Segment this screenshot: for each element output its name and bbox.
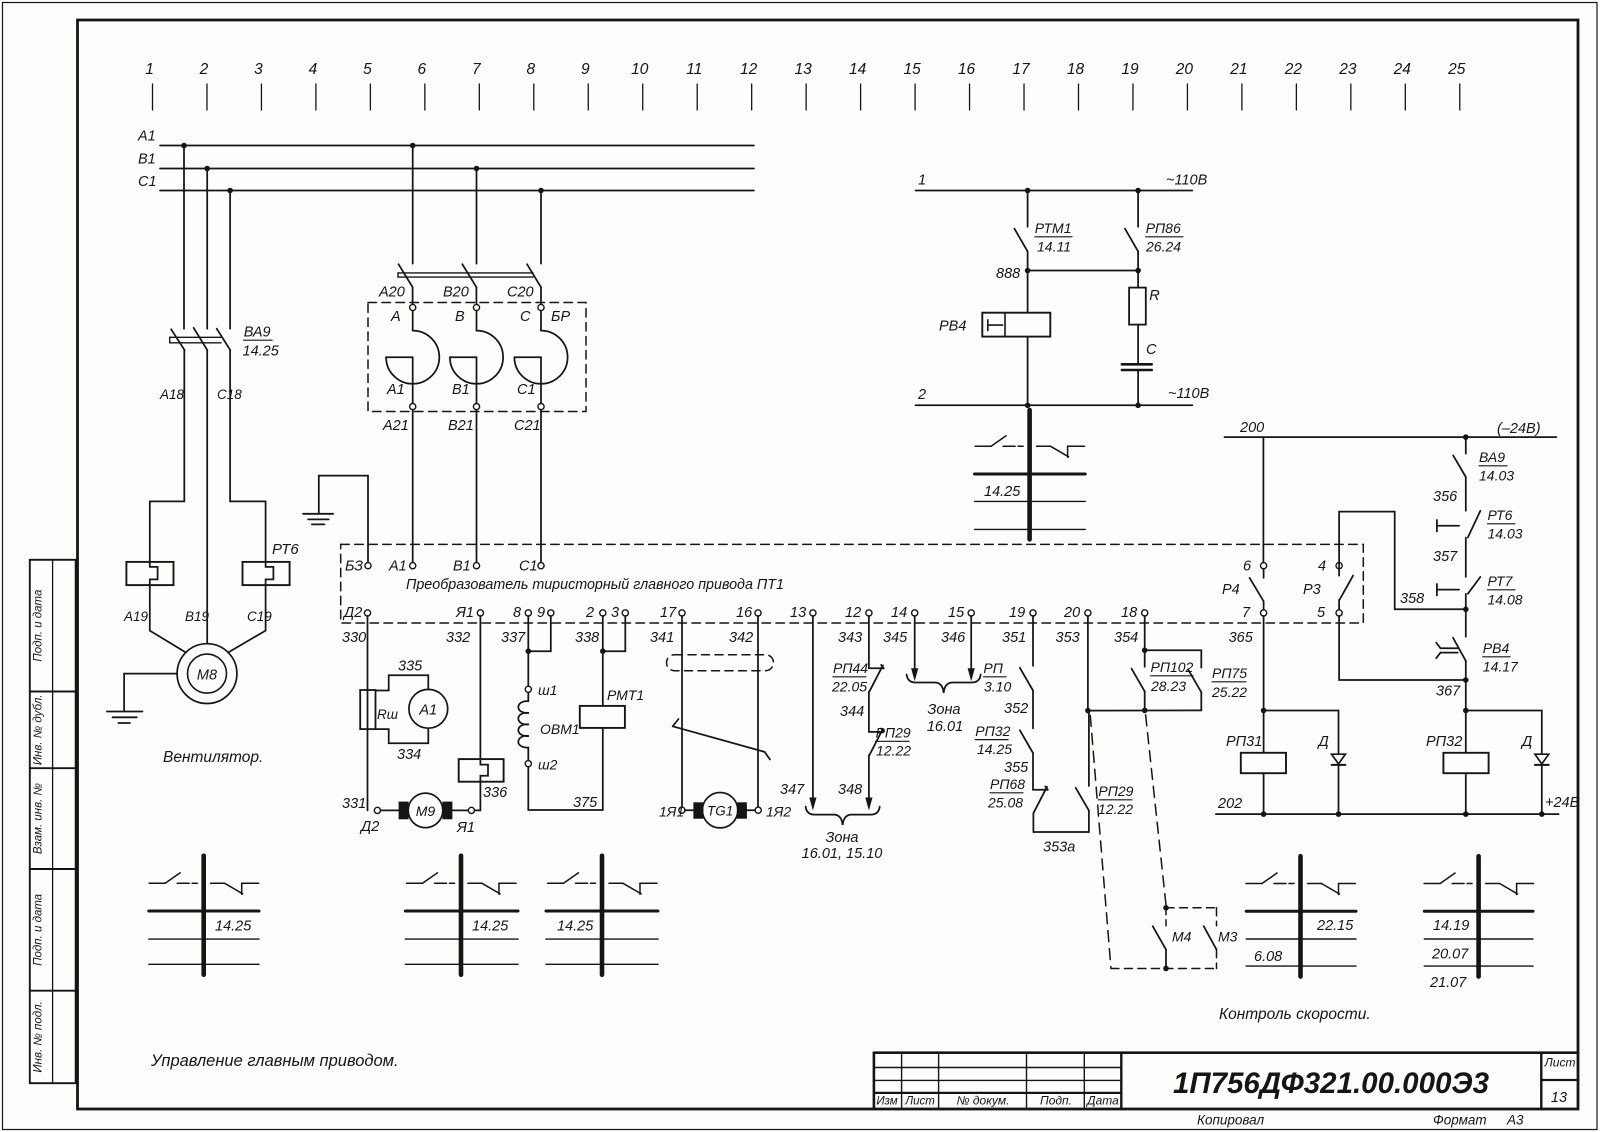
svg-text:В19: В19	[185, 609, 210, 624]
svg-text:В: В	[455, 309, 465, 325]
svg-text:6: 6	[1243, 559, 1252, 575]
svg-text:А: А	[390, 309, 401, 325]
relay coil РМТ1	[580, 687, 644, 728]
junction 8-9	[526, 648, 532, 654]
svg-text:4: 4	[309, 61, 318, 78]
contact diagram 22.15/6.08	[1246, 856, 1356, 976]
svg-text:Я1: Я1	[455, 605, 474, 621]
svg-text:РП29: РП29	[876, 725, 911, 741]
wire from A1 rail to switch pole A20	[412, 146, 414, 264]
svg-text:М9: М9	[416, 803, 436, 819]
svg-text:14.25: 14.25	[215, 919, 252, 935]
svg-text:22.15: 22.15	[1316, 918, 1354, 934]
svg-text:Управление главным приводом.: Управление главным приводом.	[150, 1052, 399, 1070]
twisted pair symbol	[673, 719, 770, 760]
svg-text:18: 18	[1067, 61, 1085, 78]
wire from C1 rail to ВА9 pole 3	[229, 191, 231, 329]
svg-text:В1: В1	[138, 152, 156, 168]
svg-text:358: 358	[1400, 591, 1424, 607]
dashed capsule (connector group)	[667, 655, 774, 671]
terminal circle Я1 (motor side)	[468, 807, 474, 813]
wire 9	[528, 616, 551, 651]
terminal circle Д2 (motor side)	[374, 807, 380, 813]
svg-text:Изм: Изм	[876, 1096, 897, 1108]
svg-text:2: 2	[585, 605, 594, 621]
wire 8/337	[527, 616, 529, 686]
contact РП44 22.05	[831, 660, 884, 695]
wire 202 bus (+24В)	[1216, 795, 1580, 817]
svg-text:13: 13	[790, 605, 806, 621]
wire to R	[1137, 251, 1139, 287]
svg-text:РП29: РП29	[1098, 783, 1133, 799]
svg-text:344: 344	[840, 704, 864, 720]
wire M9 to Я1	[452, 809, 468, 811]
diode Д (right)	[1520, 734, 1549, 765]
capacitor C	[1122, 342, 1157, 370]
svg-text:365: 365	[1229, 630, 1254, 646]
contact Р4	[1222, 569, 1264, 610]
wire R to C	[1137, 325, 1139, 364]
svg-text:375: 375	[573, 795, 598, 811]
wire РВ4/367 to РП32	[1465, 711, 1467, 753]
wire 367	[1436, 661, 1469, 710]
svg-text:345: 345	[883, 630, 908, 646]
svg-text:Rш: Rш	[377, 707, 398, 722]
wire 348	[838, 755, 873, 810]
svg-text:25.08: 25.08	[987, 795, 1023, 811]
wire 12/343	[868, 616, 870, 668]
terminal В1 (converter top)	[453, 559, 480, 575]
wire РМТ1 to 375	[602, 728, 604, 810]
current transformer В	[450, 304, 503, 409]
svg-text:17: 17	[1012, 61, 1031, 78]
terminal С1 (converter top)	[519, 559, 544, 575]
svg-text:(–24В): (–24В)	[1497, 421, 1541, 437]
terminal 12 (converter bottom)	[845, 605, 872, 621]
wire A18	[150, 350, 185, 562]
svg-text:16.01, 15.10: 16.01, 15.10	[802, 846, 883, 862]
contact РТ6 14.03	[1437, 507, 1523, 577]
wire 13/347	[780, 616, 817, 811]
contact РТ7 14.08	[1437, 573, 1523, 609]
svg-text:347: 347	[780, 782, 805, 798]
svg-text:С19: С19	[247, 609, 272, 624]
svg-text:ВА9: ВА9	[1479, 449, 1505, 465]
contact РП86 26.24	[1125, 220, 1183, 255]
terminal 17 (converter bottom)	[660, 605, 685, 621]
wire ground to node Б3	[319, 476, 368, 563]
wire 375	[528, 795, 603, 811]
svg-text:~110В: ~110В	[1166, 173, 1208, 189]
svg-text:Вентилятор.: Вентилятор.	[163, 749, 263, 766]
svg-text:РП31: РП31	[1226, 734, 1262, 750]
brace Зона 16.01	[907, 675, 981, 736]
svg-text:Подп. и дата: Подп. и дата	[33, 894, 45, 966]
svg-text:20: 20	[1063, 605, 1080, 621]
svg-text:25.22: 25.22	[1211, 684, 1247, 700]
svg-text:С21: С21	[514, 418, 541, 434]
motor M9 armature	[399, 793, 453, 828]
contact РП29 12.22 (line 12)	[869, 725, 911, 759]
svg-text:20.07: 20.07	[1431, 947, 1469, 963]
wire TG1 left	[685, 809, 693, 811]
terminal 1Я1	[659, 804, 685, 820]
current transformer С	[514, 304, 567, 409]
svg-text:335: 335	[398, 659, 423, 675]
terminal 9 (converter bottom)	[537, 605, 554, 621]
wire РП102 to bus	[1144, 691, 1146, 710]
svg-text:367: 367	[1436, 684, 1461, 700]
wire C1 rail	[138, 174, 754, 193]
connector 336	[459, 759, 508, 801]
svg-text:РТ6: РТ6	[1488, 507, 1513, 523]
svg-text:А3: А3	[1506, 1113, 1524, 1128]
svg-text:19: 19	[1009, 605, 1025, 621]
wire РП75 to bus	[1200, 692, 1202, 710]
svg-text:14.11: 14.11	[1037, 239, 1071, 255]
left margin signature table	[30, 560, 76, 1083]
svg-text:М4: М4	[1172, 929, 1192, 945]
terminal 20 (converter bottom)	[1063, 605, 1091, 621]
svg-text:16: 16	[958, 61, 976, 78]
svg-text:355: 355	[1004, 760, 1029, 776]
svg-text:336: 336	[483, 785, 508, 801]
terminal 4 (converter top)	[1318, 559, 1342, 575]
wire rail 2 ~110В	[916, 386, 1210, 405]
svg-text:17: 17	[660, 605, 677, 621]
svg-text:РВ4: РВ4	[939, 319, 966, 335]
svg-text:348: 348	[838, 782, 862, 798]
wires CT to converter terminals	[412, 410, 414, 563]
svg-text:337: 337	[501, 630, 526, 646]
wire 19/351	[1032, 616, 1034, 666]
svg-text:В1: В1	[452, 382, 470, 398]
terminal 1Я2	[755, 804, 791, 820]
svg-text:Контроль скорости.: Контроль скорости.	[1219, 1006, 1371, 1023]
svg-text:8: 8	[513, 605, 521, 621]
svg-text:3.10: 3.10	[984, 679, 1011, 695]
diode Д (left)	[1317, 734, 1346, 765]
svg-text:Подп. и дата: Подп. и дата	[33, 590, 45, 662]
relay coil РП32	[1426, 734, 1489, 773]
terminal ш1	[525, 682, 557, 698]
svg-text:20: 20	[1175, 61, 1194, 78]
terminal А1 (converter top)	[388, 559, 416, 575]
svg-text:12: 12	[845, 605, 861, 621]
svg-text:Лист: Лист	[904, 1096, 935, 1108]
wire motor M8 to ground	[124, 674, 177, 712]
terminal 16 (converter bottom)	[736, 605, 761, 621]
terminal 3 (converter bottom)	[611, 605, 628, 621]
wire 200 rail (-24В)	[1225, 420, 1557, 437]
svg-text:2: 2	[917, 387, 926, 403]
svg-text:14.25: 14.25	[977, 741, 1012, 757]
wire 888 to РП86 branch	[1028, 270, 1139, 272]
contact М3	[1204, 926, 1238, 949]
svg-text:15: 15	[948, 605, 965, 621]
svg-text:25: 25	[1447, 61, 1466, 78]
contact diagram 14.25 (a)	[149, 856, 259, 975]
svg-text:1: 1	[918, 173, 926, 189]
svg-text:РП32: РП32	[1426, 734, 1462, 750]
svg-text:14: 14	[849, 61, 867, 78]
svg-text:8: 8	[526, 61, 535, 78]
svg-text:6.08: 6.08	[1254, 949, 1282, 965]
svg-text:РП86: РП86	[1146, 220, 1181, 236]
wire from B1 rail to switch pole B20	[476, 169, 478, 264]
svg-text:В1: В1	[453, 559, 471, 575]
wire from B1 rail to ВА9 pole 2	[206, 169, 208, 329]
svg-text:5: 5	[363, 61, 372, 78]
svg-text:14.08: 14.08	[1488, 592, 1523, 608]
svg-text:РП102: РП102	[1151, 659, 1194, 675]
terminal 5 (converter bottom)	[1317, 605, 1342, 621]
ammeter loop wire 334	[376, 728, 429, 743]
svg-text:9: 9	[537, 605, 545, 621]
svg-text:№ докум.: № докум.	[957, 1094, 1010, 1108]
svg-text:БР: БР	[551, 309, 570, 325]
wire B1 rail	[138, 152, 754, 172]
svg-text:200: 200	[1239, 420, 1264, 436]
wire 2/338	[602, 616, 604, 706]
svg-text:РП: РП	[983, 660, 1003, 676]
relay coil РП31	[1226, 734, 1286, 773]
contact ВА9 14.03	[1453, 437, 1514, 483]
svg-text:А1: А1	[386, 382, 405, 398]
wire rail 1 ~110В	[916, 173, 1208, 191]
svg-text:РМТ1: РМТ1	[607, 687, 644, 703]
svg-text:Копировал: Копировал	[1197, 1113, 1265, 1128]
svg-text:28.23: 28.23	[1150, 678, 1186, 694]
mechanical link dashed line (from 20 bus)	[1090, 715, 1111, 967]
svg-text:23: 23	[1338, 61, 1357, 78]
svg-text:А1: А1	[418, 703, 437, 719]
svg-text:15: 15	[903, 61, 921, 78]
contact РП75 25.22	[1188, 665, 1247, 700]
svg-text:14.19: 14.19	[1433, 918, 1469, 934]
wire РТМ1 branch	[1027, 191, 1029, 227]
circuit breaker ВА9 (3-pole)	[170, 325, 280, 360]
svg-text:351: 351	[1002, 630, 1026, 646]
svg-text:Дата: Дата	[1085, 1094, 1119, 1108]
svg-text:С: С	[520, 309, 531, 325]
wire B19 vertical	[206, 350, 208, 643]
svg-text:ш1: ш1	[538, 682, 557, 698]
svg-text:С1: С1	[138, 174, 157, 190]
svg-text:341: 341	[650, 630, 674, 646]
wires switch to CT terminals	[412, 287, 414, 304]
svg-text:14.17: 14.17	[1483, 659, 1519, 675]
svg-text:7: 7	[472, 61, 482, 78]
ammeter loop wire 335	[376, 675, 429, 690]
svg-text:РП44: РП44	[833, 660, 868, 676]
svg-text:331: 331	[342, 796, 366, 812]
svg-text:М3: М3	[1218, 929, 1238, 945]
ground symbol (motor M8)	[107, 712, 143, 724]
svg-text:330: 330	[342, 630, 366, 646]
svg-text:7: 7	[1242, 605, 1251, 621]
svg-text:1Я1: 1Я1	[659, 804, 684, 820]
svg-text:12.22: 12.22	[1098, 801, 1133, 817]
wire 352	[1004, 691, 1033, 729]
svg-text:2: 2	[199, 61, 209, 78]
svg-text:22.05: 22.05	[831, 679, 867, 695]
wire ш2 to 375	[527, 767, 529, 810]
svg-text:Зона: Зона	[825, 830, 858, 846]
wire 353а loop	[1033, 811, 1089, 856]
wire 18/354	[1144, 616, 1146, 667]
svg-text:Формат: Формат	[1433, 1113, 1487, 1128]
wire terminal 4 to РТ7 node	[1339, 512, 1466, 610]
svg-text:А20: А20	[378, 285, 405, 301]
ammeter А1	[409, 689, 448, 728]
svg-text:~110В: ~110В	[1168, 386, 1210, 402]
svg-text:С: С	[1146, 342, 1157, 358]
terminal 15 (converter bottom)	[948, 605, 974, 621]
svg-text:РВ4: РВ4	[1483, 640, 1510, 656]
thermal relay РТ6 heater (phase A)	[126, 562, 173, 631]
svg-text:353: 353	[1056, 630, 1080, 646]
terminal Я1 (converter bottom)	[455, 605, 484, 621]
svg-text:ОВМ1: ОВМ1	[540, 721, 580, 737]
svg-text:А21: А21	[382, 418, 409, 434]
svg-text:14: 14	[891, 605, 907, 621]
wire 14/345	[911, 616, 918, 681]
wire РП31 to 202	[1263, 773, 1265, 814]
svg-text:888: 888	[996, 266, 1020, 282]
wire 20/353	[1087, 616, 1089, 711]
wire 200 to terminal 6	[1262, 437, 1264, 562]
wire A1 rail	[137, 129, 754, 149]
svg-text:6: 6	[418, 61, 427, 78]
contact РВ4 14.17	[1436, 609, 1519, 674]
bus РП31-diode	[1264, 711, 1339, 753]
svg-text:Подп.: Подп.	[1040, 1094, 1072, 1108]
contact РП68 25.08	[987, 776, 1048, 813]
disconnect switch (3 poles, linked)	[398, 264, 541, 287]
wire 344	[840, 692, 869, 732]
wire C19 slant to motor	[228, 631, 266, 653]
svg-text:346: 346	[941, 630, 966, 646]
svg-text:Взам. инв. №: Взам. инв. №	[33, 782, 45, 854]
svg-text:В20: В20	[443, 285, 469, 301]
svg-text:352: 352	[1004, 701, 1028, 717]
svg-text:А1: А1	[388, 559, 407, 575]
svg-text:Лист: Лист	[1544, 1056, 1576, 1070]
svg-text:Д2: Д2	[359, 819, 379, 835]
thyristor converter ПТ1 dashed enclosure	[341, 544, 1364, 623]
junction 2-3	[600, 648, 606, 654]
node 888	[996, 251, 1030, 312]
wire from A1 rail to ВА9 pole 1	[183, 146, 185, 329]
svg-text:24: 24	[1393, 61, 1412, 78]
svg-text:1: 1	[145, 61, 154, 78]
svg-text:13: 13	[1551, 1090, 1567, 1106]
contact РП29 12.22 (line 20)	[1076, 711, 1134, 817]
svg-text:22: 22	[1284, 61, 1303, 78]
wire terminal 5 to 367 node	[1339, 616, 1466, 680]
terminal БЗ (converter top)	[345, 559, 371, 575]
terminal ш2	[525, 757, 557, 773]
wire 3	[603, 616, 626, 651]
terminal 13 (converter bottom)	[790, 605, 816, 621]
svg-text:14.25: 14.25	[243, 344, 280, 360]
contact РП102 28.23	[1132, 659, 1194, 694]
svg-text:С20: С20	[507, 285, 534, 301]
svg-text:332: 332	[446, 630, 470, 646]
thermal relay РТ6 heater (phase C)	[243, 541, 300, 631]
svg-text:+24В: +24В	[1545, 795, 1580, 811]
svg-text:5: 5	[1317, 605, 1326, 621]
wire C18	[217, 350, 266, 562]
svg-text:19: 19	[1121, 61, 1139, 78]
terminal 8 (converter bottom)	[513, 605, 531, 621]
svg-text:3: 3	[611, 605, 619, 621]
contact diagram 14.25 (c)	[546, 856, 658, 975]
svg-text:26.24: 26.24	[1145, 239, 1181, 255]
svg-text:РП75: РП75	[1212, 665, 1247, 681]
svg-text:14.03: 14.03	[1488, 526, 1523, 542]
wire 16/342	[757, 616, 759, 807]
wire diode to 202	[1541, 765, 1543, 814]
brace Зона 16.01, 15.10	[802, 807, 883, 862]
svg-text:ТG1: ТG1	[707, 804, 733, 819]
svg-text:Я1: Я1	[456, 820, 475, 836]
ground symbol (node Б3)	[303, 514, 333, 525]
svg-text:Р3: Р3	[1303, 582, 1321, 598]
contact М4	[1153, 908, 1192, 969]
contact diagram 14.25 (b)	[405, 856, 518, 975]
svg-text:14.25: 14.25	[472, 919, 509, 935]
svg-text:РП68: РП68	[990, 776, 1025, 792]
wire terminal 7 to РП31	[1263, 616, 1265, 753]
wire 355	[1004, 753, 1033, 790]
wire 356	[1433, 477, 1466, 511]
svg-text:Инв. № дубл.: Инв. № дубл.	[33, 694, 45, 765]
svg-text:16: 16	[736, 605, 753, 621]
svg-text:14.03: 14.03	[1479, 468, 1514, 484]
svg-text:11: 11	[686, 61, 702, 78]
terminal 18 (converter bottom)	[1121, 605, 1148, 621]
dashed box of current transformers	[368, 303, 586, 412]
time relay coil РВ4	[939, 313, 1050, 337]
svg-text:202: 202	[1217, 796, 1242, 812]
shunt Rш	[360, 690, 398, 729]
svg-text:3: 3	[254, 61, 263, 78]
svg-text:В21: В21	[448, 418, 474, 434]
svg-text:Инв. № подл.: Инв. № подл.	[33, 1001, 45, 1072]
current transformer А	[386, 304, 439, 409]
svg-text:А19: А19	[123, 609, 149, 624]
svg-text:12: 12	[740, 61, 758, 78]
svg-text:R: R	[1149, 288, 1160, 304]
contact diagram 14.19/20.07/21.07	[1424, 856, 1534, 991]
mechanical link dashed line (from 18 bus)	[1146, 715, 1166, 905]
svg-text:М8: М8	[197, 668, 217, 684]
svg-text:14.25: 14.25	[984, 484, 1021, 500]
svg-text:А18: А18	[159, 387, 185, 402]
wire to РП75 branch	[1145, 650, 1202, 667]
wire 17/341	[681, 616, 683, 807]
svg-text:342: 342	[729, 630, 753, 646]
svg-text:РП32: РП32	[975, 723, 1010, 739]
М4/М3 dashed enclosure	[1111, 908, 1217, 969]
svg-text:Преобразователь тиристорный гл: Преобразователь тиристорный главного при…	[406, 577, 784, 593]
svg-text:РТ6: РТ6	[272, 541, 299, 558]
svg-text:ш2: ш2	[538, 757, 558, 773]
svg-text:10: 10	[631, 61, 649, 78]
bus wire (20-18-РП75)	[1088, 709, 1201, 711]
